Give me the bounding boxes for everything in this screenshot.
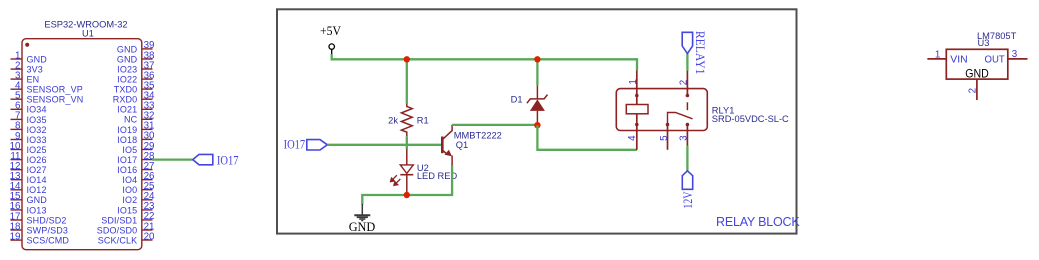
svg-text:SCS/CMD: SCS/CMD — [27, 236, 70, 246]
wire Q1 collector to D1 — [452, 124, 537, 126]
svg-text:IO16: IO16 — [117, 165, 137, 175]
svg-text:2k: 2k — [388, 115, 398, 125]
svg-text:IO21: IO21 — [117, 105, 137, 115]
svg-text:IO5: IO5 — [122, 145, 137, 155]
wire IO17 from U1 pin 28 — [152, 158, 193, 160]
svg-text:5: 5 — [659, 135, 670, 141]
U1 pin 13 IO14 — [10, 171, 47, 185]
svg-text:2: 2 — [678, 80, 689, 85]
svg-text:U3: U3 — [978, 38, 990, 48]
U1 pin 19 SCS/CMD — [10, 231, 70, 245]
U1 pin 22 SDI/SD1 — [101, 211, 154, 225]
svg-text:4: 4 — [627, 135, 638, 141]
RLY1 pin 1 — [628, 70, 639, 104]
svg-text:RELAY1: RELAY1 — [693, 31, 707, 75]
regulator U3 LM7805T body — [946, 49, 1008, 79]
svg-text:GND: GND — [349, 219, 376, 234]
svg-text:R1: R1 — [417, 115, 429, 125]
wire RLY1 pin 3 to 12V label — [686, 146, 688, 171]
svg-text:IO2: IO2 — [122, 195, 137, 205]
resistor R1 2k — [388, 104, 429, 137]
ground GND — [349, 204, 376, 234]
svg-text:IO34: IO34 — [27, 105, 47, 115]
RLY1 pin 2 — [678, 70, 689, 110]
svg-text:Q1: Q1 — [456, 140, 468, 150]
svg-text:IO17: IO17 — [284, 137, 306, 151]
svg-text:IO19: IO19 — [117, 125, 137, 135]
svg-text:IO22: IO22 — [117, 75, 137, 85]
U1 pin 21 SDO/SD0 — [97, 221, 155, 235]
svg-text:GND: GND — [27, 54, 48, 64]
U1 pin 2 3V3 — [11, 60, 43, 74]
U1 pin 32 NC — [124, 111, 155, 125]
svg-text:SDO/SD0: SDO/SD0 — [97, 225, 138, 235]
svg-text:IO27: IO27 — [27, 165, 47, 175]
junction rail/D1 — [534, 56, 540, 62]
RLY1 switch blade — [668, 113, 693, 125]
svg-text:12V: 12V — [681, 191, 695, 209]
svg-text:IO15: IO15 — [117, 205, 137, 215]
U1 pin 38 GND — [117, 50, 155, 64]
svg-text:EN: EN — [27, 75, 40, 85]
svg-text:19: 19 — [10, 231, 21, 242]
U1 pin 35 TXD0 — [114, 80, 155, 94]
svg-text:IO13: IO13 — [27, 205, 47, 215]
svg-text:IO14: IO14 — [27, 175, 47, 185]
U3 labels — [977, 31, 1017, 48]
ESP32 module U1 body — [22, 39, 142, 250]
svg-text:U1: U1 — [82, 29, 94, 39]
power +5V — [320, 24, 341, 55]
svg-text:IO23: IO23 — [117, 64, 137, 74]
U1 pin 17 SHD/SD2 — [10, 211, 67, 225]
U3 pin 3 OUT — [985, 49, 1028, 66]
svg-text:D1: D1 — [511, 94, 523, 104]
svg-text:IO18: IO18 — [117, 135, 137, 145]
U1 pin 11 IO26 — [10, 151, 46, 165]
svg-text:IO17: IO17 — [217, 153, 239, 167]
U1 pin 18 SWP/SD3 — [10, 221, 68, 235]
svg-text:20: 20 — [144, 231, 155, 242]
svg-text:1: 1 — [628, 79, 639, 84]
U3 pin 2 GND — [965, 68, 989, 100]
wire emitter bottom rail — [362, 165, 452, 205]
U1 pin 14 IO12 — [10, 181, 47, 195]
svg-text:IO0: IO0 — [122, 185, 137, 195]
RLY1 labels — [712, 106, 789, 124]
wire D1 node to RLY1 pin 4 — [537, 125, 637, 150]
wire RLY1 pin 2 to RELAY1 label — [686, 54, 688, 71]
svg-text:NC: NC — [124, 115, 138, 125]
U1 pin 36 IO22 — [117, 70, 155, 84]
U1 pin 3 EN — [11, 70, 40, 84]
U1 pin 20 SCK/CLK — [98, 231, 155, 245]
svg-text:SHD/SD2: SHD/SD2 — [27, 215, 67, 225]
svg-text:3: 3 — [1012, 49, 1018, 60]
U1 pin 8 IO32 — [11, 121, 47, 135]
svg-text:OUT: OUT — [985, 55, 1006, 66]
svg-text:GND: GND — [27, 195, 48, 205]
svg-text:GND: GND — [965, 68, 989, 81]
U1 pin 37 IO23 — [117, 60, 154, 74]
U1 pin 25 IO0 — [122, 181, 155, 195]
svg-text:SWP/SD3: SWP/SD3 — [27, 225, 69, 235]
ESP32 pin-1 marker dot — [25, 43, 29, 47]
svg-text:IO12: IO12 — [27, 185, 47, 195]
wire rail to R1 — [406, 59, 408, 103]
svg-text:IO26: IO26 — [27, 155, 47, 165]
wire +5V rail — [332, 54, 637, 70]
U1 pin 29 IO5 — [122, 141, 154, 155]
svg-text:3: 3 — [678, 135, 689, 141]
svg-text:GND: GND — [117, 44, 138, 54]
svg-text:2: 2 — [967, 88, 978, 93]
U1 pin 28 IO17 — [117, 151, 155, 165]
svg-text:SRD-05VDC-SL-C: SRD-05VDC-SL-C — [712, 114, 789, 124]
U1 pin 34 RXD0 — [113, 91, 155, 105]
RLY1 pin 5 — [659, 123, 670, 150]
U1 pin 6 IO34 — [11, 101, 47, 115]
net label RELAY1 — [682, 31, 707, 75]
junction rail/R1 — [404, 56, 410, 62]
junction LED bottom — [404, 192, 410, 198]
net label 12V — [681, 171, 695, 209]
svg-text:RELAY BLOCK: RELAY BLOCK — [716, 215, 800, 229]
wire IO17 to Q1 base — [327, 144, 441, 146]
U1 pin 16 IO13 — [10, 201, 47, 215]
svg-text:SDI/SD1: SDI/SD1 — [101, 215, 137, 225]
svg-text:GND: GND — [117, 54, 138, 64]
svg-text:3V3: 3V3 — [27, 65, 43, 75]
svg-text:RXD0: RXD0 — [113, 95, 138, 105]
RLY1 pin 4 — [627, 114, 639, 150]
U1 pin 31 IO19 — [117, 121, 154, 135]
U1 pin 24 IO2 — [122, 191, 155, 205]
RLY1 coil — [626, 105, 648, 114]
U1 pin 26 IO4 — [122, 171, 155, 185]
svg-text:IO32: IO32 — [27, 125, 47, 135]
svg-text:IO35: IO35 — [27, 115, 47, 125]
U1 pin 30 IO18 — [117, 131, 155, 145]
net label IO17 (relay block input) — [284, 137, 328, 151]
U1 pin 1 GND — [11, 50, 48, 64]
U1 pin 39 GND — [117, 40, 155, 54]
U1 pin 7 IO35 — [11, 111, 47, 125]
U1 pin 12 IO27 — [10, 161, 47, 175]
svg-text:+5V: +5V — [320, 24, 341, 38]
wire R1 to base wire — [406, 136, 408, 149]
relay block border — [277, 9, 797, 233]
RLY1 pin 3 — [678, 123, 689, 146]
svg-text:IO33: IO33 — [27, 135, 47, 145]
svg-text:SENSOR_VN: SENSOR_VN — [27, 95, 84, 105]
U1 pin 23 IO15 — [117, 201, 155, 215]
junction D1 anode node — [534, 122, 540, 128]
svg-text:1: 1 — [935, 49, 940, 60]
U1 pin 33 IO21 — [117, 101, 155, 115]
transistor Q1 MMBT2222 — [442, 125, 502, 165]
U1 pin 10 IO25 — [10, 141, 47, 155]
svg-text:SENSOR_VP: SENSOR_VP — [27, 85, 83, 95]
U1 pin 5 SENSOR_VN — [11, 91, 84, 105]
svg-text:IO4: IO4 — [122, 175, 137, 185]
svg-text:IO17: IO17 — [117, 155, 137, 165]
net label IO17 (left flag) — [193, 153, 239, 167]
U1 pin 15 GND — [10, 191, 48, 205]
U1 pin 9 IO33 — [11, 131, 47, 145]
LED U2 LED RED — [391, 149, 458, 195]
svg-text:IO25: IO25 — [27, 145, 47, 155]
U1 pin 27 IO16 — [117, 161, 154, 175]
U3 pin 1 VIN — [927, 49, 967, 65]
U1 pin 4 SENSOR_VP — [11, 81, 83, 95]
svg-text:VIN: VIN — [950, 55, 967, 66]
diode D1 zener — [536, 59, 538, 85]
relay RLY1 SRD-05VDC-SL-C body — [616, 89, 707, 131]
svg-text:TXD0: TXD0 — [114, 85, 138, 95]
svg-text:SCK/CLK: SCK/CLK — [98, 235, 138, 245]
